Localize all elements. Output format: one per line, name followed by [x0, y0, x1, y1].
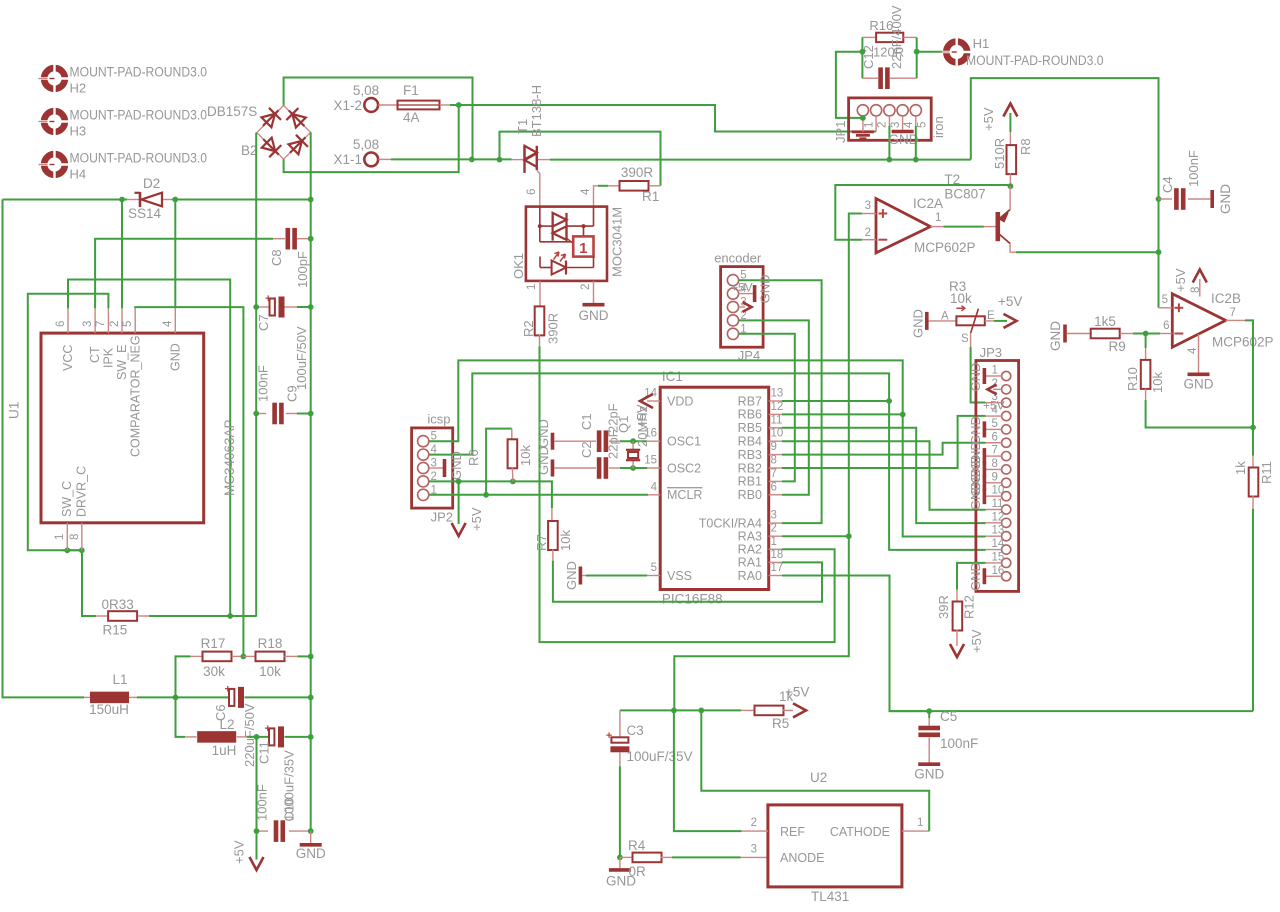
svg-text:RA1: RA1: [738, 556, 762, 570]
IC1 pin 9 RB3: [769, 454, 782, 456]
svg-text:10k: 10k: [950, 291, 972, 306]
svg-text:R8: R8: [1018, 138, 1033, 155]
IC2A pin 1 output: [930, 226, 943, 228]
svg-text:100uF/50V: 100uF/50V: [294, 326, 309, 390]
svg-text:PIC16F88: PIC16F88: [662, 592, 723, 607]
svg-text:100nF: 100nF: [256, 365, 271, 402]
svg-text:GND: GND: [968, 416, 983, 445]
svg-text:30k: 30k: [203, 664, 225, 679]
svg-text:4: 4: [162, 320, 174, 327]
U1 pin 6 VCC: [67, 308, 69, 333]
svg-text:GND: GND: [169, 343, 183, 371]
wire triac gate to OK1 pin6: [537, 170, 540, 207]
svg-text:GND: GND: [911, 309, 926, 338]
svg-text:TL431: TL431: [811, 889, 849, 904]
svg-text:2: 2: [865, 227, 871, 239]
svg-text:JP3: JP3: [980, 345, 1002, 360]
wire JP4 pin5 to RA4: [739, 280, 822, 523]
JP3 pad 15: [1002, 558, 1011, 567]
wire R16/C12 right link: [916, 37, 918, 78]
junction C8 at ground rail: [308, 236, 314, 242]
wire JP2 pin1 to MCLR: [429, 494, 648, 496]
svg-text:10: 10: [992, 485, 1005, 497]
JP3 pad 16: [1002, 572, 1011, 581]
resistor R4 0R: [620, 856, 633, 858]
svg-text:390R: 390R: [621, 165, 654, 180]
capacitor C3 100uF/35V: [619, 710, 621, 737]
svg-text:390R: 390R: [546, 313, 561, 344]
triac T1 BT138-H: [512, 159, 524, 161]
junction D2 right (GND pin column): [172, 197, 178, 203]
+5V arrow below R12 (down): [950, 644, 964, 657]
svg-text:2: 2: [877, 122, 889, 128]
resistor R9 1k5: [1067, 333, 1091, 335]
JP3 pin15 stub and wire to R12: [986, 562, 1002, 564]
svg-text:R18: R18: [258, 636, 283, 651]
capacitor C6 220uF/50V: [225, 683, 245, 708]
IC1 pin 13 RB7: [769, 400, 782, 402]
svg-text:OSC1: OSC1: [667, 435, 701, 449]
junction Q1 bottom: [630, 465, 636, 471]
JP3 pad 8: [1002, 465, 1011, 474]
wire RB3 to JP3 pin6: [782, 443, 986, 455]
svg-text:MOUNT-PAD-ROUND3.0: MOUNT-PAD-ROUND3.0: [70, 151, 208, 166]
svg-text:GND: GND: [889, 132, 919, 147]
resistor R2 390R: [535, 306, 545, 335]
svg-text:BC807: BC807: [944, 187, 985, 202]
svg-text:22nF/400V: 22nF/400V: [889, 5, 904, 69]
svg-text:MOUNT-PAD-ROUND3.0: MOUNT-PAD-ROUND3.0: [70, 108, 208, 123]
JP3 pad 5: [1002, 425, 1011, 434]
IC1 pin 2 RA3: [769, 535, 782, 537]
junction D2 line at ground rail: [308, 197, 314, 203]
junction C9 right: [308, 411, 314, 417]
T2 collector stub and wire to rail: [1010, 244, 1016, 253]
wire JP2 pin4 to RB7 column: [429, 373, 889, 454]
wire IC2A pin3 down to RA3 net: [674, 214, 862, 711]
junction R6/MCLR: [483, 492, 489, 498]
JP3 pad 1: [1002, 371, 1011, 380]
JP1 pin3 stub and wire down: [888, 116, 890, 126]
svg-text:7: 7: [771, 468, 777, 480]
wire U1 pin7 IPK loop: [28, 294, 109, 551]
optocoupler OK1 MOC3041M: [526, 207, 607, 281]
svg-text:COMPARATOR_NEG: COMPARATOR_NEG: [128, 335, 142, 457]
U1 pin 7 IPK: [107, 308, 109, 333]
ground symbol at C2 (rotated): [551, 460, 555, 477]
svg-text:13: 13: [771, 388, 784, 400]
svg-text:VSS: VSS: [667, 569, 692, 583]
IC2A pin 2 (-): [862, 239, 876, 241]
svg-text:1: 1: [54, 534, 66, 540]
svg-text:12: 12: [992, 511, 1005, 523]
svg-text:1k5: 1k5: [1094, 314, 1116, 329]
svg-text:4A: 4A: [403, 110, 420, 125]
IC1 pin 3 T0CKI/RA4: [769, 522, 782, 524]
svg-text:ANODE: ANODE: [780, 851, 824, 865]
junction R8 bottom / T2 base node: [1008, 183, 1014, 189]
wire RB6 to JP3 pin13: [782, 413, 903, 415]
junction R4/C3/GND: [617, 855, 623, 861]
JP3 pad 2: [1002, 385, 1011, 394]
IC U1 MC34063AP: [41, 333, 204, 523]
svg-text:GND: GND: [536, 446, 551, 475]
JP3 pin8 GND (rotated): [986, 468, 1002, 470]
junction RA3 tap on IC2A+ net: [846, 533, 852, 539]
wire RB7 to JP3 pin14: [782, 400, 889, 402]
IC2A pin 3 (+): [862, 213, 876, 215]
svg-text:0R33: 0R33: [102, 597, 134, 612]
wire U1 pin3 CT to C8: [95, 239, 273, 309]
svg-text:GND: GND: [296, 846, 326, 861]
svg-text:GND: GND: [536, 419, 551, 448]
svg-text:6: 6: [992, 431, 998, 443]
junction L1/R17 column: [173, 695, 179, 701]
wire R11 down to output rail: [1252, 509, 1254, 711]
ground symbol below C10: [310, 831, 312, 844]
JP4 pad 3: [727, 301, 738, 312]
svg-text:C9: C9: [285, 385, 300, 402]
U1 pin 5 COMPARATOR_NEG: [134, 308, 136, 333]
wire bridge top corner loop to X1-1 net: [284, 78, 473, 160]
svg-text:RB0: RB0: [738, 488, 762, 502]
junction X1-1 column: [469, 157, 475, 163]
junction snubber right: [914, 49, 920, 55]
JP1 pin5 stub and wire down: [915, 116, 917, 126]
junction snubber left: [860, 49, 866, 55]
wire IC2A output to T2 base: [944, 226, 984, 228]
wire snubber to iron pin1: [836, 52, 863, 118]
JP1 pin2 stub: [875, 116, 877, 132]
ground symbol at VSS (rotated): [579, 567, 583, 585]
junction R6 bottom on pin2 net: [510, 479, 516, 485]
svg-text:C8: C8: [269, 249, 284, 266]
IC2B pin 8 +5V: [1193, 270, 1207, 283]
svg-text:GND: GND: [914, 767, 944, 782]
crystal Q1 20MHz: [626, 441, 640, 468]
+5V arrow right of R3: [994, 320, 1007, 322]
svg-text:X1-2: X1-2: [333, 98, 362, 113]
svg-text:GND: GND: [1218, 184, 1233, 214]
svg-text:150uH: 150uH: [89, 702, 129, 717]
wire output rail y711: [620, 709, 741, 711]
JP3 pin12 stub: [986, 522, 1002, 524]
svg-text:RB1: RB1: [738, 475, 762, 489]
svg-text:IC2A: IC2A: [913, 196, 943, 211]
svg-text:4: 4: [580, 188, 592, 195]
op-amp IC2B MCP602P: [1172, 294, 1225, 347]
svg-text:5,08: 5,08: [353, 137, 379, 152]
JP3 pin1 GND (rotated): [986, 375, 1002, 377]
wire U1 pin5 COMP- to R17/R18 node: [135, 307, 243, 656]
wire triac out to iron pin5 net: [550, 159, 971, 161]
junction +5V tap on pin2 net: [456, 479, 462, 485]
svg-text:8: 8: [69, 534, 81, 540]
JP2 pad 2: [418, 476, 429, 487]
junction C11 right at ground rail: [308, 734, 314, 740]
svg-text:+5V: +5V: [998, 294, 1022, 309]
svg-text:RA3: RA3: [738, 530, 762, 544]
svg-text:1: 1: [917, 817, 923, 829]
wire left outer loop to L1: [3, 200, 85, 698]
fuse F1 4A: [398, 101, 440, 110]
svg-text:100nF: 100nF: [254, 784, 269, 821]
earth ground symbol at JP1 pin1: [852, 128, 874, 139]
svg-text:8: 8: [771, 455, 777, 467]
wire JP4 pin2 to RB0 column: [739, 320, 809, 494]
wire X1-1 run to triac: [391, 158, 512, 160]
junction C10 left: [254, 828, 260, 834]
IC1 pin 16 OSC1: [647, 440, 660, 442]
svg-text:H3: H3: [70, 124, 87, 139]
svg-text:RB5: RB5: [738, 421, 762, 435]
svg-text:icsp: icsp: [427, 412, 450, 427]
svg-text:VDD: VDD: [667, 394, 693, 408]
svg-text:GND: GND: [579, 308, 609, 323]
svg-text:1: 1: [935, 212, 941, 224]
wire CATHODE loop to output rail: [701, 710, 929, 831]
svg-text:U1: U1: [7, 402, 22, 419]
svg-text:GND: GND: [968, 562, 983, 591]
svg-text:SW_E: SW_E: [115, 345, 129, 380]
capacitor C2 22pF: [554, 467, 596, 469]
svg-text:C3: C3: [627, 723, 644, 738]
svg-text:11: 11: [771, 414, 783, 426]
IC1 pin 5 VSS: [647, 575, 660, 577]
IC1 pin 15 OSC2: [647, 467, 660, 469]
svg-text:T0CKI/RA4: T0CKI/RA4: [699, 516, 762, 530]
wire +5V rail down to C10: [256, 737, 258, 860]
svg-text:RB4: RB4: [738, 435, 762, 449]
junction R17/R18: [241, 654, 247, 660]
svg-text:9: 9: [771, 441, 777, 453]
svg-text:6: 6: [771, 481, 777, 493]
JP4 pad 5: [727, 275, 738, 286]
svg-text:CT: CT: [88, 346, 102, 363]
junction R15/VCC column: [227, 613, 233, 619]
junction R9/R10/IC2B-: [1143, 331, 1149, 337]
JP1 pad 4: [897, 105, 908, 116]
svg-text:3: 3: [890, 122, 902, 128]
resistor R8 510R: [1009, 132, 1011, 146]
junction D2 left (SW_E column): [119, 197, 125, 203]
IC1 pin 6 RB0: [769, 494, 782, 496]
OK1 internal LED: [540, 252, 594, 275]
svg-text:+5V: +5V: [969, 629, 984, 653]
svg-text:IC2B: IC2B: [1211, 291, 1241, 306]
svg-text:7: 7: [992, 445, 998, 457]
svg-text:17: 17: [771, 562, 784, 574]
mount pad H3: [39, 107, 71, 136]
svg-text:+5V: +5V: [785, 685, 809, 700]
svg-text:3: 3: [751, 843, 757, 855]
connector JP1 iron: [849, 98, 932, 140]
svg-text:10k: 10k: [1150, 372, 1165, 393]
svg-text:T1: T1: [515, 119, 530, 134]
svg-text:R6: R6: [466, 449, 481, 466]
svg-text:REF: REF: [780, 825, 805, 839]
mount pad H2: [39, 64, 71, 93]
svg-text:L1: L1: [112, 672, 127, 687]
resistor R5 1k: [741, 709, 755, 711]
svg-text:100uF/35V: 100uF/35V: [627, 749, 693, 764]
svg-text:+5V: +5V: [469, 507, 484, 531]
wire U1 pin2 SW_E up to D2 node: [121, 200, 123, 309]
wire GND to VSS: [582, 575, 586, 577]
wire JP2 pin5 to RB6 column: [429, 360, 903, 441]
capacitor C11 1000uF/35V: [265, 723, 285, 748]
capacitor C8 100pF: [273, 238, 285, 240]
svg-text:R1: R1: [642, 189, 659, 204]
svg-text:R4: R4: [628, 838, 646, 853]
wire U1 pin6 VCC to R15 node: [68, 280, 230, 617]
U1 pin 1 SW_C: [66, 523, 68, 551]
JP4 pad 4: [727, 288, 738, 299]
IC1 pin 4 MCLR: [648, 494, 660, 496]
svg-text:C11: C11: [257, 741, 272, 764]
junction C7 left: [253, 304, 259, 310]
svg-text:L2: L2: [219, 717, 234, 732]
svg-text:5,08: 5,08: [353, 83, 379, 98]
U1 pin 4 GND: [174, 308, 176, 333]
trimmer R3 10k: [929, 320, 957, 322]
wire U1 pin4 GND up to D2 node: [174, 200, 176, 309]
OK1 pin2 stub to GND: [593, 281, 595, 303]
JP1 pad 3: [884, 105, 895, 116]
svg-text:OK1: OK1: [511, 253, 526, 279]
wire U1 pins 1/8 to R15: [62, 550, 96, 616]
resistor R10 10k: [1145, 334, 1147, 349]
junction U1 pin1: [64, 547, 70, 553]
svg-text:U2: U2: [810, 770, 827, 785]
junction Q1 top: [630, 438, 636, 444]
JP1 pad 5: [910, 105, 921, 116]
IC2B pin 4 GND: [1198, 334, 1200, 373]
svg-text:iron: iron: [931, 116, 946, 138]
U1 pin 2 SW_E: [121, 308, 123, 333]
svg-text:3: 3: [865, 200, 871, 212]
svg-text:C2: C2: [579, 441, 594, 458]
junction R18 at ground rail: [308, 654, 314, 660]
capacitor C9 100nF: [256, 413, 266, 415]
IC2B pin 5 (+): [1159, 307, 1173, 309]
svg-text:JP4: JP4: [738, 348, 760, 363]
svg-text:5: 5: [1162, 294, 1168, 306]
op-amp IC2A MCP602P: [876, 199, 930, 253]
JP1 pin4 stub to GND bar: [902, 116, 904, 130]
junction C10 right at ground rail: [308, 828, 314, 834]
svg-text:H2: H2: [70, 81, 87, 96]
svg-text:3: 3: [771, 510, 777, 522]
JP3 pad 13: [1002, 532, 1011, 541]
wire RB5 to JP3 pin12: [782, 428, 986, 523]
svg-text:R11: R11: [1259, 461, 1274, 484]
svg-text:RA2: RA2: [738, 543, 762, 557]
svg-text:13: 13: [992, 525, 1005, 537]
JP3 pad 12: [1002, 518, 1011, 527]
JP3 pad 6: [1002, 438, 1011, 447]
svg-text:CATHODE: CATHODE: [830, 825, 890, 839]
svg-text:R17: R17: [201, 636, 226, 651]
svg-text:DB157S: DB157S: [207, 104, 257, 119]
U2 pin 2 REF: [742, 830, 768, 832]
svg-text:4: 4: [903, 121, 915, 128]
U2 pin 1 CATHODE: [902, 830, 929, 832]
IC1 pin 18 RA1: [769, 561, 782, 563]
wire D2 net segment: [3, 199, 128, 201]
svg-text:MCP602P: MCP602P: [1212, 335, 1274, 350]
svg-text:S: S: [961, 333, 969, 345]
svg-text:6: 6: [526, 189, 538, 195]
svg-text:C10: C10: [282, 798, 297, 822]
svg-text:X1-1: X1-1: [333, 152, 362, 167]
wire bridge right corner down ground rail: [310, 132, 312, 831]
wire L1 node down to L2: [176, 697, 186, 737]
svg-text:2: 2: [580, 284, 592, 290]
IC1 pin 1 RA2: [769, 548, 782, 550]
svg-text:1k: 1k: [1233, 461, 1248, 475]
svg-text:F1: F1: [403, 83, 419, 98]
svg-text:1: 1: [863, 122, 875, 128]
svg-text:100nF: 100nF: [940, 736, 978, 751]
IC U2 TL431: [768, 805, 902, 887]
svg-text:A: A: [941, 311, 949, 323]
svg-text:15: 15: [992, 551, 1005, 563]
svg-text:+5V: +5V: [981, 107, 996, 131]
JP3 pin2 +5V arrow (left): [993, 388, 1002, 390]
svg-text:encoder: encoder: [714, 251, 762, 266]
wire IC2A pin2 to R8/T2 base node: [835, 185, 1010, 240]
svg-text:16: 16: [992, 565, 1005, 577]
JP3 pin3 stub: [986, 402, 1002, 404]
svg-text:+5V: +5V: [232, 840, 247, 864]
svg-text:8: 8: [992, 458, 998, 470]
svg-text:100pF: 100pF: [295, 251, 310, 288]
svg-text:1: 1: [579, 240, 587, 257]
svg-text:5: 5: [992, 418, 998, 430]
resistor R11 1k: [1252, 456, 1254, 469]
svg-text:2: 2: [751, 817, 757, 829]
svg-text:2: 2: [771, 523, 777, 535]
junction iron pin5 at triac net: [913, 157, 919, 163]
JP3 pad 4: [1002, 411, 1011, 420]
wire triac bypass to R1: [500, 132, 661, 186]
svg-text:JP1: JP1: [833, 121, 848, 143]
svg-text:Q1: Q1: [616, 416, 631, 433]
svg-text:R10: R10: [1125, 367, 1140, 391]
IC2B pin 7 output: [1226, 319, 1245, 321]
mount pad H4: [39, 150, 71, 179]
svg-text:10k: 10k: [259, 664, 281, 679]
svg-text:5: 5: [916, 122, 928, 128]
svg-text:1: 1: [526, 284, 538, 290]
JP1 pin1 stub: [862, 116, 864, 128]
JP2 pin3 stub to GND (rotated): [429, 467, 443, 469]
wire fuse node to iron pin2: [459, 105, 876, 132]
svg-text:10k: 10k: [558, 530, 573, 551]
svg-text:5: 5: [651, 562, 657, 574]
JP2 pad 5: [418, 436, 429, 447]
junction TL431 cathode column: [698, 708, 704, 714]
svg-text:+5V: +5V: [1173, 268, 1188, 292]
svg-text:MCLR: MCLR: [667, 488, 702, 502]
OK1 internal triac: [538, 207, 594, 244]
resistor R12 39R: [956, 590, 958, 603]
svg-text:GND: GND: [1184, 377, 1214, 392]
JP1 pad 1: [857, 105, 868, 116]
svg-text:+5V: +5V: [731, 281, 753, 295]
svg-text:1: 1: [992, 365, 998, 377]
